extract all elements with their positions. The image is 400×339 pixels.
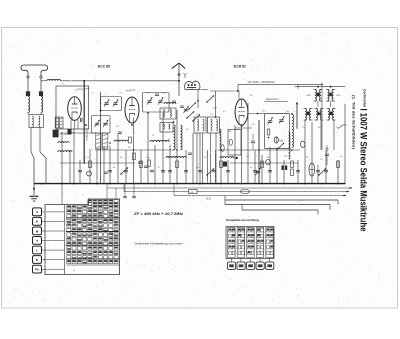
capacitor C26 [188, 153, 192, 154]
trimmer C1 [104, 99, 109, 106]
label volume [213, 108, 218, 110]
wire demod top [248, 113, 265, 115]
svg-text:Det: Det [286, 110, 290, 113]
wire h 235-252 [235, 127, 252, 129]
capacitor C30 [118, 132, 122, 133]
title sub rotated [351, 95, 355, 150]
svg-text:AM OSZILL.-SPANNUNG: AM OSZILL.-SPANNUNG [248, 81, 275, 84]
wire antenna legs to band coils [28, 113, 41, 115]
oscillator coil L12 [174, 125, 176, 150]
tube V4 indicator [274, 137, 278, 143]
switch S7 [188, 102, 196, 109]
label ECH 81 [234, 65, 246, 69]
svg-text:ECC 85: ECC 85 [98, 65, 110, 69]
label UKW Kanal [75, 87, 90, 92]
svg-text:60µ: 60µ [325, 148, 330, 151]
capacitor C13 [325, 145, 329, 165]
tube V3 ECH81 [235, 99, 248, 125]
label komplette [226, 218, 259, 222]
piano key buttons [33, 208, 46, 273]
capacitor C10b [104, 172, 108, 173]
wire v 322 [321, 84, 323, 150]
dots misc [61, 132, 293, 164]
coil L10 [58, 151, 72, 152]
wire antenna box down [31, 128, 46, 185]
wire switch down [215, 91, 217, 117]
elco oval [221, 145, 224, 152]
capacitor C28 [172, 101, 176, 102]
label ECC 85 [98, 65, 110, 69]
balun transformer [185, 81, 201, 91]
svg-text:4x0,068: 4x0,068 [60, 134, 69, 136]
wire feed line 3 [174, 184, 347, 201]
coil L5 on top wire [41, 79, 61, 80]
wire if links [297, 101, 334, 184]
component value labels [86, 157, 309, 169]
antenna dipole [21, 65, 48, 76]
wire v 240 [210, 91, 239, 99]
wire long v100 [100, 92, 102, 184]
coil L21 [289, 132, 291, 159]
title main rotated [359, 109, 369, 232]
keyboard contact grid [67, 200, 118, 264]
resistor R25 [291, 169, 294, 176]
transformer box T3 [208, 117, 220, 133]
coil L8 [150, 140, 169, 142]
resistors above bus [89, 161, 340, 168]
wire mid h5 [230, 162, 298, 164]
switch S4 [206, 168, 214, 175]
wire top horizontal [61, 80, 180, 82]
capacitor C29 [180, 106, 184, 107]
capacitor C5 [81, 118, 83, 122]
tube V2 ECC85 triode b [125, 97, 139, 123]
svg-text:T: T [36, 239, 38, 243]
tube V1 ECC85 triode a [68, 97, 82, 121]
bus junction dots [41, 183, 339, 185]
wire mid h2 [95, 149, 175, 151]
trimmer C4 [103, 120, 108, 127]
antenna coupling box [29, 115, 44, 128]
switch S5 [186, 111, 194, 118]
trimmer C2 [113, 99, 118, 106]
resistor R22 [133, 153, 136, 160]
capacitor C31 [155, 94, 159, 95]
wire if hook [338, 125, 347, 129]
switch S3 [276, 143, 284, 150]
svg-text:UKW Baust.: UKW Baust. [85, 128, 88, 141]
oscillator coil L13 [181, 125, 183, 150]
IF transformer T1 windings [96, 133, 101, 149]
wire balun drop [197, 90, 199, 108]
coil L20 tall [292, 115, 294, 148]
dot a [83, 80, 293, 118]
label 47k [279, 140, 283, 142]
wire feed line 5 [225, 200, 330, 210]
coil L2 antenna right [41, 97, 43, 113]
svg-text:I 1007 W Stereo Selda Musiktru: I 1007 W Stereo Selda Musiktruhe [359, 109, 369, 232]
wire balun right [201, 89, 209, 91]
switch S1 [206, 95, 214, 102]
UKW tuner box [56, 86, 89, 129]
svg-text:Ph: Ph [35, 268, 39, 272]
ratio detector box [265, 114, 290, 149]
capacitors above bus [78, 171, 328, 172]
capacitor dark right [39, 91, 43, 96]
svg-text:ECH 81: ECH 81 [234, 65, 246, 69]
switch S6 [192, 114, 200, 121]
wire shielded [264, 98, 288, 102]
coil L9 [166, 157, 186, 158]
ground bus [34, 183, 346, 185]
trimmer C3 [94, 120, 99, 127]
label vertical UKW [85, 128, 88, 141]
svg-text:1M: 1M [266, 157, 269, 159]
keyboard matrix outline [45, 199, 120, 275]
alignment block outline [226, 227, 274, 259]
svg-text:osz: osz [72, 132, 75, 134]
trimmer C7 [158, 97, 163, 104]
capacitor drops [123, 184, 136, 198]
electrolytic C10 [87, 171, 92, 176]
dark blob [223, 162, 227, 167]
IF transformer block B5 [327, 109, 336, 121]
svg-text:ZF = 460 kHz + 10,7 MHz: ZF = 460 kHz + 10,7 MHz [133, 212, 184, 216]
wire mid h4 [60, 162, 135, 164]
trimmer group box b [92, 116, 111, 134]
coil L11 [220, 157, 234, 158]
IF transformer block B4 [315, 109, 324, 121]
coil pair box B [160, 123, 173, 133]
more value labels [62, 83, 343, 162]
resistor R21 [267, 129, 270, 138]
wire verticals to ground bus [62, 103, 345, 184]
wire T2 pins [197, 133, 216, 184]
svg-text:Tr: Tr [62, 83, 64, 86]
keyboard bottom strip [67, 265, 120, 272]
IF transformer T1b windings [103, 133, 108, 149]
IF transformer block B2 [326, 90, 341, 102]
capacitor C24 [138, 162, 142, 163]
wire mid h1 [60, 132, 96, 134]
wire bus to keyboard [62, 184, 116, 205]
coil pair box A [160, 108, 176, 119]
trimmer C12 [255, 168, 260, 175]
wire feed line 4 [225, 196, 338, 205]
dark cap pair [282, 166, 288, 171]
svg-text:Continental: Continental [363, 89, 367, 107]
wire feed line 6 [242, 205, 318, 215]
capacitor C23 [251, 134, 255, 150]
svg-text:U: U [36, 210, 38, 214]
oscillator coil L14 [220, 129, 222, 150]
svg-text:L: L [36, 248, 38, 252]
wire mid h3 [218, 149, 300, 151]
elco in AF box [229, 139, 232, 145]
label 4x0,068 [60, 134, 69, 136]
transformer box T2 [194, 117, 206, 133]
trimmer group box [101, 97, 122, 111]
ground symbol [30, 184, 39, 201]
trimmer C21 [279, 116, 284, 123]
coil L1 antenna left [28, 97, 30, 113]
switch S8 [120, 167, 128, 174]
antenna leg rings [27, 76, 42, 78]
svg-text:abgeschirmt: abgeschirmt [266, 98, 279, 101]
thick chassis line [83, 81, 85, 163]
title brand rotated [363, 89, 367, 107]
alignment strips [228, 228, 274, 258]
resistor R20 on line2 [124, 184, 350, 194]
label above V2 [126, 88, 137, 92]
svg-text:(1. Teil des Schaltbildes): (1. Teil des Schaltbildes) [351, 95, 355, 150]
antenna FM dipole arrow [172, 63, 187, 96]
alignment buttons [227, 259, 273, 270]
oval on line2 [240, 189, 249, 193]
coil L15 [164, 103, 176, 105]
coil L6 below trimmers [114, 140, 128, 141]
AF box [228, 130, 241, 156]
electrolytic C22 [301, 141, 305, 147]
meter M1 [309, 163, 315, 176]
coil L7 [58, 142, 69, 143]
resistor R23 [129, 137, 132, 143]
wire AM oszill [237, 83, 323, 92]
dark blob below V1 [68, 129, 72, 135]
heavy wire v259 [258, 120, 260, 184]
keyboard ladder rungs [45, 212, 65, 269]
electrolytic C11 [266, 160, 271, 165]
label V4 [281, 141, 284, 143]
label ZF [133, 212, 184, 216]
label 60u [325, 148, 330, 151]
wire feed line 1 [107, 184, 353, 189]
label AM OSZILL [248, 81, 275, 84]
wire antenna legs [28, 78, 41, 91]
trimmer group box 2 [143, 93, 170, 113]
capacitor dark left [26, 91, 30, 96]
junction dot AF [236, 157, 238, 159]
capacitor C25 [144, 166, 148, 167]
IF transformer block B3 [304, 109, 313, 121]
coil box L3 hatched [55, 117, 58, 128]
dark core block [53, 130, 58, 137]
keyboard group separators [66, 218, 120, 259]
svg-text:42 Ω: 42 Ω [206, 198, 211, 200]
resistor R24 [148, 160, 151, 167]
junction dots mid [85, 103, 298, 151]
wire if top bus [295, 85, 345, 89]
switch S2 [318, 168, 326, 175]
IF transformer block B1 [307, 90, 323, 102]
trimmer C20 [267, 117, 272, 124]
svg-text:1M: 1M [228, 131, 231, 133]
label gedruckte [135, 242, 183, 246]
tube V1 pins [71, 120, 78, 129]
svg-text:Gedruckte Verdrahtung von unte: Gedruckte Verdrahtung von unten [135, 242, 183, 246]
svg-text:+: + [73, 268, 75, 272]
svg-text:Komplette Ausrichtung: Komplette Ausrichtung [226, 218, 259, 222]
trimmer C6 [147, 97, 152, 104]
trimmer C27 [183, 106, 188, 113]
coil box L4 hatched [60, 117, 63, 128]
